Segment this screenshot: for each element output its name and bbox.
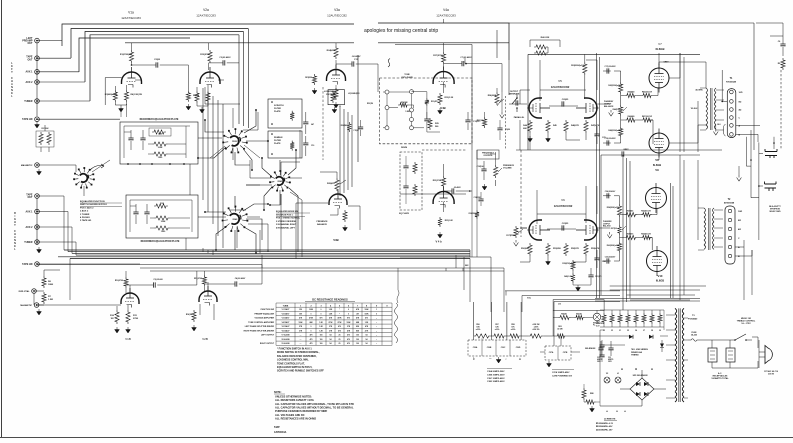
svg-text:470: 470 [347,342,350,345]
svg-text:Δ: Δ [473,358,475,361]
wire middle bus bundle [58,250,470,259]
svg-text:C30B 30MFD-500V: C30B 30MFD-500V [487,374,505,376]
jack J4 AUX 2 [35,80,40,85]
wire tone network interconnect [383,92,440,132]
resistor R26 586 [347,122,351,132]
svg-text:R54|330K|±10%: R54|330K|±10% [607,206,620,209]
wire section border solid [357,55,359,162]
svg-text:100: 100 [320,339,323,341]
transformer T3 power [675,308,677,402]
svg-text:R45|460: R45|460 [628,91,635,94]
svg-text:J10: J10 [558,304,561,306]
bias network bottom [582,388,586,400]
resistor R44 V5a grid [528,120,532,133]
resistor R39 27K tail [571,260,575,271]
svg-text:470: 470 [310,338,313,341]
svg-text:V3: V3 [611,330,613,332]
svg-text:R48|330K|±10%: R48|330K|±10% [608,129,622,132]
diode D3 vertical [660,344,664,348]
wire T3 taps [666,315,688,398]
svg-text:R3|680|±10%: R3|680|±10% [105,94,118,96]
svg-text:SCRATCH: SCRATCH [274,104,284,107]
box FREQUENCY CONTROL [477,150,499,159]
ground V3b [343,225,348,231]
svg-text:25: 25 [339,339,341,341]
svg-text:AUX 1: AUX 1 [25,71,33,74]
wire V4 right vertical [395,30,509,150]
svg-text:R31|47K: R31|47K [431,100,438,103]
resistor R11 2700 plate V2b [202,275,206,286]
svg-text:Θ: Θ [635,368,637,371]
resistor R26 left of V3a [312,74,316,85]
pot R57 100 balance lower [617,225,621,235]
svg-text:R2 100K: R2 100K [41,128,49,130]
svg-text:BAL-NCE: BAL-NCE [603,225,611,228]
capacitor C32 filter [608,348,613,350]
svg-text:BAL-ANCE: BAL-ANCE [604,105,614,108]
svg-text:C17|.02-400V: C17|.02-400V [604,65,616,68]
svg-text:2 AUX 2: 2 AUX 2 [80,210,89,213]
resistor R33 220K [583,62,587,75]
svg-text:V8: V8 [651,330,653,332]
wire right jack feeds [37,196,140,264]
svg-text:R47|4.7K: R47|4.7K [591,124,600,127]
resistor R11 V1b [126,310,130,324]
ground V3a [334,102,339,108]
border frame bottom edge [0,437,793,439]
svg-text:TONE CONTROLS FLAT,: TONE CONTROLS FLAT, [277,362,305,365]
svg-text:R17|2700: R17|2700 [433,55,443,57]
power tube V9 [646,188,667,209]
svg-text:R24|680K: R24|680K [488,94,497,97]
svg-text:F2030448: F2030448 [726,81,737,84]
svg-text:R67|40: R67|40 [576,313,582,316]
resistor tone vertical right [425,98,429,106]
svg-text:R50|68K: R50|68K [521,248,529,250]
wire hum balance [553,310,597,336]
resistor R51 V6 cathode [546,243,550,256]
svg-text:R60|330K|±10%: R60|330K|±10% [607,245,620,247]
triode V3b [329,194,347,205]
wire V2a down leads [197,80,224,91]
capacitor on border [358,127,363,129]
resistor R24 plate V3a [334,46,338,59]
svg-text:C30D 30MFD-400V: C30D 30MFD-400V [487,380,505,383]
svg-text:R42|100 1W: R42|100 1W [642,91,652,94]
svg-text:ALL RESISTORS 1/2WATT ±10%: ALL RESISTORS 1/2WATT ±10% [275,398,314,402]
capacitor C8 V4b [452,188,454,193]
svg-text:R36|15K: R36|15K [469,213,476,215]
resistor R1 2700 plate V1a [129,50,133,63]
resistor R67 40 hum [574,315,585,319]
svg-text:POS 1 STEREO NORMAL: POS 1 STEREO NORMAL [276,217,301,220]
svg-text:V4a: V4a [443,8,449,12]
resistor R30 plate V4a [442,52,446,64]
wire magnetic to preamp [37,125,76,172]
terminal pins upper plate [127,163,129,165]
resistor R63 40 2W [555,334,566,338]
svg-text:V4B: V4B [440,106,445,110]
capacitor C13 [465,120,470,122]
svg-text:470: 470 [338,329,341,332]
scan cut mark [388,59,390,68]
svg-text:TUBE: TUBE [283,305,289,307]
wire top bus 4 [85,32,244,83]
svg-text:40 2W: 40 2W [557,327,562,330]
resistor R52 [564,243,568,256]
svg-text:54: 54 [366,338,368,341]
svg-text:68K: 68K [523,128,527,130]
svg-text:SR1 SELENIUM: SR1 SELENIUM [633,375,648,377]
resistor R14 V2b cathode [192,310,196,322]
svg-text:TONE: TONE [404,74,410,76]
svg-text:V7 6L6GB: V7 6L6GB [282,335,291,337]
svg-text:R50|1M: R50|1M [367,103,374,105]
svg-text:047: 047 [311,123,314,126]
svg-text:V2: V2 [606,373,608,375]
svg-text:*NO. USE SERIES: *NO. USE SERIES [631,349,649,351]
wire line caps [712,340,758,368]
svg-text:A.C.: A.C. [718,372,722,375]
svg-text:V1: V1 [619,330,621,332]
svg-text:1: 1 [376,309,377,311]
svg-text:25: 25 [339,343,341,345]
resistor network above V5 [534,45,548,49]
svg-text:C30C: C30C [501,347,506,349]
pilot lamp P2 [604,377,610,383]
capacitor C1 coupling V1a [156,62,158,67]
wire V1a plate [131,43,133,65]
svg-text:R46|460: R46|460 [628,115,635,118]
svg-text:R40|1.2K: R40|1.2K [564,275,572,278]
resistor heater R94 [634,313,638,324]
ground speaker selector [737,175,742,181]
svg-text:OUT: OUT [27,196,33,199]
box L2 loudness unit [328,90,345,105]
svg-text:Δ: Δ [651,368,653,371]
svg-text:V5 12AU7: V5 12AU7 [282,325,290,328]
svg-text:V4 12AX7: V4 12AX7 [282,321,290,324]
svg-text:CONTROL: CONTROL [483,155,493,157]
triode V4a [433,72,454,85]
svg-text:DC RESISTANCE READINGS: DC RESISTANCE READINGS [312,298,348,302]
resistor R23 [290,141,294,151]
svg-text:ALL VOLTAGES ARE DC: ALL VOLTAGES ARE DC [275,413,305,417]
box SCRATCH FILTER PLATE [268,99,302,128]
wire top bus 2 [71,29,248,59]
wire V3a plate [336,43,378,92]
svg-text:C30B: C30B [487,347,492,349]
svg-text:0: 0 [321,309,322,311]
wire top bus 1 [62,23,509,60]
svg-text:PARALLEL: PARALLEL [514,116,525,119]
resistor R40 tail 2 [571,273,575,283]
svg-text:V10: V10 [658,274,663,278]
svg-text:Θ: Θ [616,411,618,413]
wire V5 region extras [509,60,610,150]
svg-text:V4: V4 [635,329,637,332]
svg-text:V9: V9 [655,168,659,172]
wire V2b plate wiring [204,255,262,292]
svg-text:0: 0 [311,326,312,328]
svg-text:V5: V5 [627,330,629,332]
fuse F1 [688,339,700,342]
jack J12 TAPE HD right [35,262,40,267]
diode D2 series [649,335,653,339]
svg-text:PURPOSE CERAMICS REFERRED BY M: PURPOSE CERAMICS REFERRED BY MMF [275,409,328,413]
tap circles column left [385,90,389,94]
wire V2b leads [200,282,214,320]
terminal strip T2 [725,206,735,264]
ground below C27 [547,361,552,367]
pot R44 100 balance [619,105,623,116]
svg-text:ALL RESISTANCES ARE IN OHMS: ALL RESISTANCES ARE IN OHMS [275,416,316,420]
wire switch mesh 2 [262,150,298,252]
svg-text:R14|1M: R14|1M [186,313,193,316]
svg-text:V8 6L6GB: V8 6L6GB [282,339,291,341]
svg-text:R4|1.5K|1W: R4|1.5K|1W [131,93,142,96]
svg-text:LEFT PHASE SPLITTER-DRIVER: LEFT PHASE SPLITTER-DRIVER [245,325,275,328]
switch S4 power on-off [735,334,752,340]
resistor row V10 grid [624,235,637,239]
wire jack column interconnect [37,41,120,120]
resistor R18 lower plate [154,204,168,208]
ground below TUNER right [37,247,42,253]
ground balance pot [609,110,614,116]
svg-text:117VAC 60 C/S: 117VAC 60 C/S [764,370,779,373]
svg-text:△: △ [518,358,521,361]
svg-text:SWITCH SHOWN IN POS1: SWITCH SHOWN IN POS1 [80,204,108,206]
svg-text:C23|25: C23|25 [562,223,569,225]
svg-text:C27B POWERED 50V: C27B POWERED 50V [552,375,573,377]
ground V6 cluster [546,259,551,265]
svg-text:ALL CAPACITOR VALUES WITH DECI: ALL CAPACITOR VALUES WITH DECIMAL, TO BE… [275,402,354,406]
wire switch to plug [700,337,758,348]
wire V6 wiring [520,186,586,229]
svg-text:PRESENCE: PRESENCE [316,221,328,223]
svg-text:AUX 2: AUX 2 [25,226,33,229]
capacitor C3 coupling V2a [223,60,225,65]
svg-text:C27A 30MFD-450V: C27A 30MFD-450V [552,371,570,374]
wire phono selector arrow [90,164,104,170]
svg-text:C27A: C27A [549,351,554,354]
ground balance lower [607,232,612,238]
jack J8 TAPE OUT right [35,194,40,199]
svg-text:R57|100: R57|100 [611,228,617,230]
triode V5b [584,98,597,118]
ground under loudness unit [332,107,337,113]
resistor heater R96 [650,313,654,324]
triode V2a [200,72,220,84]
svg-text:C7|.02-400V: C7|.02-400V [460,56,472,59]
node selector junctions [750,159,752,161]
wire xtal wiring [34,270,60,305]
svg-text:TAPE HD: TAPE HD [22,118,33,121]
svg-text:858: 858 [356,326,359,328]
svg-text:ALL CAPACITOR VALUES WITHOUT D: ALL CAPACITOR VALUES WITHOUT DECIMAL, TO… [275,405,354,409]
svg-text:R11|2700: R11|2700 [194,278,202,280]
capacitor C11 V3a output [352,61,354,66]
svg-text:AUX 2: AUX 2 [25,81,33,84]
svg-text:SELEC SWS: SELEC SWS [769,211,781,213]
svg-text:C27B: C27B [563,352,568,354]
svg-text:C3|.02-600: C3|.02-600 [153,279,162,281]
svg-text:BALANCE DEFEATED CENTERED,: BALANCE DEFEATED CENTERED, [277,355,317,358]
capacitor can C27 dashed box [545,346,571,360]
wire V1a cathode mesh [115,80,141,90]
svg-text:MAGNETIC: MAGNETIC [20,304,32,307]
svg-text:TUNER: TUNER [24,100,33,103]
svg-text:OUT: OUT [27,58,33,61]
svg-text:54: 54 [366,342,368,345]
wire V6 region extras [520,186,610,273]
svg-text:C30C 30MFD-400V: C30C 30MFD-400V [487,377,505,380]
svg-text:R44|100: R44|100 [613,108,620,111]
svg-text:470: 470 [338,325,341,328]
capacitor C6 inside upper plate [140,138,145,140]
resistor R22 175K [290,111,294,121]
capacitor C5 inside upper plate [128,138,133,140]
box RECORDER EQUALIZATION PLATE upper [120,122,198,164]
svg-text:GREY: GREY [623,149,629,151]
wire vertical bundle right of C3 [239,29,248,129]
wire heater rails [600,310,664,327]
jack J3 AUX 1 [35,70,40,75]
resistor cluster V7 grid row [625,93,637,97]
resistor R57 12K dropping [492,334,506,338]
brace T1 bottom terminals [723,124,725,136]
capacitor column right of C27 [599,345,604,347]
svg-text:C20|25: C20|25 [562,99,569,101]
resistor R53 V6b [584,243,588,256]
svg-text:12AX7/ECC83: 12AX7/ECC83 [196,14,216,18]
box RECORDER EQUALIZATION PLATE lower [126,195,198,238]
transformer T1 windings [706,88,708,129]
svg-text:ZENER 60A: ZENER 60A [631,351,643,354]
box PHONO EQUALIZATION PLATE lower [400,152,422,210]
tap circles column right [410,90,414,94]
svg-text:C31: C31 [597,357,600,359]
svg-text:RIGHT OUTPUT: RIGHT OUTPUT [260,343,275,345]
svg-text:R53|4.7K: R53|4.7K [591,247,600,250]
svg-text:MAGNETIC: MAGNETIC [21,164,33,167]
svg-text:R23|1M: R23|1M [477,120,484,122]
resistor R16 100K upper plate [152,142,168,146]
svg-text:R40 22K: R40 22K [541,36,550,39]
power tube V8 left channel lower [649,133,669,153]
wire V4 coupling run [465,58,502,92]
svg-text:L1: L1 [617,373,619,375]
svg-text:PLATE: PLATE [274,142,281,145]
svg-text:518P: 518P [274,426,280,429]
wire T2 leads [698,208,723,250]
svg-text:870: 870 [347,318,350,320]
svg-text:470: 470 [347,334,350,337]
svg-text:SELENIUM: SELENIUM [585,348,596,350]
wire V4a plate [444,19,462,93]
resistor R33 plate V4b [442,176,446,188]
resistor R70 feedback [781,58,785,70]
ground V1a cathode [119,106,124,112]
svg-text:270K: 270K [133,318,139,320]
svg-text:REAR: REAR [233,218,239,221]
jack J2 TAPE OUT [35,56,40,61]
svg-text:V1B: V1B [125,337,131,341]
svg-text:VOLUME: VOLUME [503,168,512,170]
dashed divider right of V3a [322,87,324,160]
wire rotary interconnects [84,138,281,248]
wire bundle joins to bus [186,87,240,255]
box hum balance [553,300,604,311]
svg-text:RECORDER EQUALIZATION PLATE: RECORDER EQUALIZATION PLATE [140,118,179,121]
capacitor C24 V6b out [594,258,599,260]
svg-text:LOUDNESS CONTROL MIN,: LOUDNESS CONTROL MIN, [277,359,309,362]
wire lower plate wiring [130,200,192,232]
capacitor C34 line filter [726,348,735,362]
svg-text:54: 54 [330,334,332,337]
table grid [276,303,392,345]
svg-text:C4|.02-400V: C4|.02-400V [235,277,246,280]
wire diode rails [600,330,668,390]
svg-text:PREAMP EQUALIZER: PREAMP EQUALIZER [254,312,274,315]
dashed divider center [520,150,522,237]
svg-text:R64|40: R64|40 [561,313,567,316]
wire amp section bottom edge [595,298,700,301]
svg-text:6L6GB: 6L6GB [655,47,664,51]
svg-text:TUNER: TUNER [24,241,33,244]
capacitor C4 coupling V2b [235,281,237,286]
svg-text:4Ω: 4Ω [739,109,742,112]
svg-text:RIGHT PHASE SPLITTER-DRIVER: RIGHT PHASE SPLITTER-DRIVER [244,329,275,332]
svg-text:0: 0 [321,313,322,315]
svg-text:V9: V9 [659,330,661,332]
resistor R23 1M lower [483,117,487,128]
resistor R62 4.5K 2W [528,334,543,338]
svg-text:R24|47K: R24|47K [327,49,336,52]
svg-text:C16|104: C16|104 [477,165,484,168]
ground V4a cathode [438,108,443,114]
svg-text:REAR: REAR [278,180,284,183]
svg-text:1M: 1M [110,318,113,320]
svg-text:470K|1W: 470K|1W [400,101,407,104]
wire V1a grid left [105,78,121,105]
wire V5 plate wiring [520,54,586,106]
svg-text:BALANCE: BALANCE [317,223,327,226]
power tube V7 [649,68,669,88]
resistor R50 V6a grid [528,243,532,256]
wire V7 plate to transformer [659,53,706,160]
wire mesh square dots [204,119,206,121]
wire bridge connections [600,370,666,406]
svg-text:CNTL PLATE: CNTL PLATE [401,76,413,79]
svg-text:L1 200MAFB+ 28V: L1 200MAFB+ 28V [596,428,613,431]
triode V1b [121,293,139,304]
wire T1 secondary to selector [736,125,760,142]
svg-text:C32: C32 [608,357,611,359]
svg-text:0: 0 [348,313,349,315]
ground C16 [482,184,487,190]
svg-text:V2 12AX7: V2 12AX7 [282,312,290,315]
svg-text:V 4 b: V 4 b [435,240,442,244]
svg-text:R1|2700|1W: R1|2700|1W [120,54,133,56]
resistor row V9 grid [624,213,637,217]
wire power supply frame [600,310,664,406]
resistor R7 1.5M [42,292,46,304]
capacitor C23 between V6 [562,225,564,230]
wire selector wiring [739,130,774,240]
wire V9 cluster connections [603,196,657,261]
resistor heater R90 [602,313,606,324]
